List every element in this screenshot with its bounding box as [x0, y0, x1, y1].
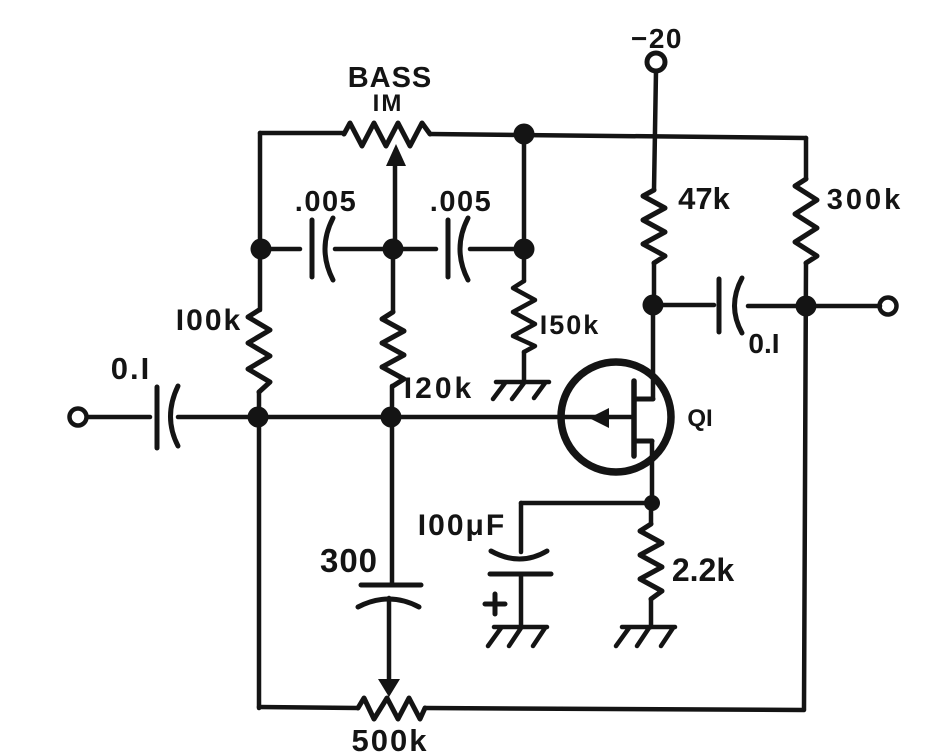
svg-text:I20k: I20k	[404, 372, 474, 405]
svg-text:I50k: I50k	[540, 310, 601, 340]
svg-text:0.I: 0.I	[111, 351, 151, 386]
svg-text:300: 300	[320, 542, 378, 579]
svg-text:.005: .005	[295, 186, 357, 218]
svg-text:I00μF: I00μF	[418, 509, 506, 542]
svg-text:300k: 300k	[827, 184, 904, 216]
svg-text:−20: −20	[631, 23, 683, 54]
svg-text:QI: QI	[687, 405, 712, 432]
svg-text:IM: IM	[373, 90, 404, 117]
svg-text:500k: 500k	[352, 723, 429, 752]
svg-text:.005: .005	[430, 186, 492, 218]
svg-text:2.2k: 2.2k	[672, 552, 734, 588]
svg-text:I00k: I00k	[176, 304, 242, 337]
svg-text:0.I: 0.I	[748, 328, 779, 359]
svg-text:47k: 47k	[678, 181, 730, 216]
